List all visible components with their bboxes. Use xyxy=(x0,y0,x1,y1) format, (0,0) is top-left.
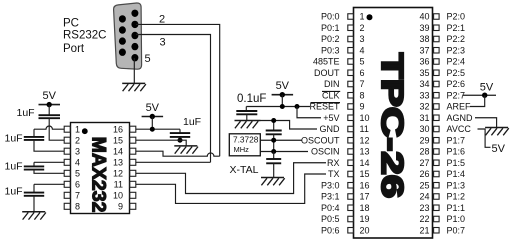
capacitor C2 1uF (pin1 to pin3) xyxy=(24,137,44,140)
overbar on CLK xyxy=(322,90,340,92)
svg-text:10: 10 xyxy=(360,113,370,123)
svg-text:PC: PC xyxy=(63,17,79,29)
svg-text:RESET: RESET xyxy=(309,102,340,112)
svg-text:P2:1: P2:1 xyxy=(447,23,466,33)
svg-text:2: 2 xyxy=(360,23,365,33)
svg-text:11: 11 xyxy=(360,124,369,134)
svg-text:P1:1: P1:1 xyxy=(447,203,466,213)
svg-text:28: 28 xyxy=(419,147,429,157)
svg-text:MHz: MHz xyxy=(234,145,250,154)
wire RESET net to TPC RESET pin xyxy=(246,106,310,108)
svg-text:P2:4: P2:4 xyxy=(447,57,466,67)
wire MAX232 pin14 T1OUT with hop xyxy=(136,151,220,156)
connector J1 DB9 shell PC RS232C port xyxy=(114,3,142,69)
svg-text:6: 6 xyxy=(360,68,365,78)
svg-text:P0:2: P0:2 xyxy=(321,34,340,44)
svg-text:P0:5: P0:5 xyxy=(321,214,340,224)
svg-text:P2:7: P2:7 xyxy=(447,90,466,100)
svg-text:25: 25 xyxy=(419,180,429,190)
capacitor C6 0.1uF (reset) xyxy=(236,111,257,114)
svg-text:30: 30 xyxy=(419,124,429,134)
svg-text:36: 36 xyxy=(419,57,429,67)
svg-text:1uF: 1uF xyxy=(5,132,23,144)
svg-text:24: 24 xyxy=(419,192,429,202)
svg-text:GND: GND xyxy=(320,124,341,134)
wire C2 bottom to MAX232 pin3 xyxy=(34,140,64,151)
svg-text:29: 29 xyxy=(419,135,429,145)
svg-text:P0:6: P0:6 xyxy=(321,225,340,235)
wire TPC P2:7 to 5V xyxy=(463,94,497,96)
wire MAX232 pin11 T1IN to TPC TX xyxy=(136,174,326,203)
svg-text:P1:4: P1:4 xyxy=(447,169,466,179)
wire ground bar to TPC GND pin xyxy=(261,121,318,130)
supply 5V top-left xyxy=(39,90,61,107)
svg-text:12: 12 xyxy=(360,135,370,145)
svg-text:6: 6 xyxy=(75,180,80,190)
svg-text:P0:3: P0:3 xyxy=(321,45,340,55)
svg-text:TPC-26: TPC-26 xyxy=(375,53,409,198)
svg-text:2: 2 xyxy=(159,13,165,25)
svg-text:40: 40 xyxy=(419,12,429,22)
wire pin6 to C4 xyxy=(33,184,35,192)
svg-text:33: 33 xyxy=(419,90,429,100)
IC U1 TPC-26 body xyxy=(354,8,433,239)
svg-text:TX: TX xyxy=(328,169,340,179)
ground at AGND xyxy=(485,128,509,136)
wire J1 pin2 to MAX232 T1OUT net xyxy=(136,24,220,156)
U1 pin1 indicator dot xyxy=(367,14,373,20)
U2 right pin numbers 16-9 xyxy=(113,124,123,211)
wire C8 bottom to ground xyxy=(273,163,275,178)
svg-text:2: 2 xyxy=(75,136,80,146)
svg-text:P2:3: P2:3 xyxy=(447,45,466,55)
svg-text:9: 9 xyxy=(360,102,365,112)
junction RESET +5V branch xyxy=(295,104,300,109)
svg-text:18: 18 xyxy=(360,203,370,213)
svg-text:16: 16 xyxy=(360,180,370,190)
svg-text:AGND: AGND xyxy=(447,113,474,123)
junction OSCOUT xyxy=(271,138,276,143)
wire MAX232 pin12 R1OUT to TPC RX xyxy=(136,163,326,194)
overbar on RESET xyxy=(311,102,341,104)
svg-text:0.1uF: 0.1uF xyxy=(237,93,266,105)
svg-text:23: 23 xyxy=(419,203,429,213)
svg-text:13: 13 xyxy=(360,147,370,157)
svg-text:3: 3 xyxy=(75,147,80,157)
svg-text:27: 27 xyxy=(419,158,429,168)
svg-text:P1:6: P1:6 xyxy=(447,147,466,157)
wire C4 bottom to ground xyxy=(33,196,35,212)
U2 pin1 indicator dot xyxy=(82,128,88,134)
svg-text:P0:4: P0:4 xyxy=(321,203,340,213)
svg-text:4: 4 xyxy=(75,158,80,168)
svg-text:P3:1: P3:1 xyxy=(321,192,340,202)
svg-text:11: 11 xyxy=(114,180,123,190)
svg-text:3: 3 xyxy=(360,34,365,44)
junction C5 GND net xyxy=(178,138,183,143)
capacitor C4 1uF (pin6 to gnd) xyxy=(24,193,44,196)
U1 right pin numbers 40-21 xyxy=(419,12,429,236)
svg-text:3: 3 xyxy=(160,37,166,49)
svg-text:15: 15 xyxy=(360,169,370,179)
wire TPC AGND to ground xyxy=(475,118,497,128)
junction 5V RESET xyxy=(280,104,285,109)
svg-text:7: 7 xyxy=(75,191,80,201)
ground at MAX232 pin15 xyxy=(174,146,198,154)
svg-text:MAX232: MAX232 xyxy=(87,137,109,213)
svg-text:8: 8 xyxy=(75,202,80,212)
svg-text:32: 32 xyxy=(419,102,429,112)
wire OSCIN to C8 top xyxy=(273,152,275,160)
svg-text:DOUT: DOUT xyxy=(314,68,340,78)
svg-text:P3:0: P3:0 xyxy=(321,180,340,190)
svg-text:AREF: AREF xyxy=(447,102,472,112)
svg-text:34: 34 xyxy=(419,79,429,89)
svg-text:1uF: 1uF xyxy=(5,161,23,173)
crystal Y1 7.3728 MHz box xyxy=(229,134,260,156)
svg-text:P0:7: P0:7 xyxy=(447,225,466,235)
svg-text:9: 9 xyxy=(118,202,123,212)
wire branch to TPC +5V pin xyxy=(297,107,321,118)
svg-text:39: 39 xyxy=(419,23,429,33)
svg-text:P1:7: P1:7 xyxy=(447,135,466,145)
svg-text:P0:0: P0:0 xyxy=(321,12,340,22)
junction 5V pin16 xyxy=(150,127,155,132)
wire MAX232 pin13 R1IN xyxy=(136,161,211,163)
svg-text:20: 20 xyxy=(360,225,370,235)
junction P2:7 AREF 5V xyxy=(482,93,487,98)
wire RESET net to C6 top xyxy=(245,107,247,112)
wire C7 bottom through OSCOUT to OSCIN xyxy=(273,134,275,151)
wire Y1 to TPC OSCOUT xyxy=(260,139,302,141)
svg-text:26: 26 xyxy=(419,169,429,179)
svg-text:13: 13 xyxy=(113,158,123,168)
U1 right pin squares 40-21 xyxy=(434,14,440,233)
U1 left pin numbers 1-20 xyxy=(360,12,370,236)
wire to C5 top xyxy=(179,129,181,133)
U2 left pin numbers 1-8 xyxy=(75,125,80,212)
U1 right pin labels xyxy=(447,12,474,236)
svg-text:10: 10 xyxy=(113,191,123,201)
svg-text:P0:1: P0:1 xyxy=(321,23,340,33)
svg-text:21: 21 xyxy=(419,225,429,235)
svg-text:12: 12 xyxy=(113,169,123,179)
svg-text:37: 37 xyxy=(419,45,429,55)
J1 pins 6-9 (left column) xyxy=(119,15,126,56)
wire C5 bottom to pin15 net xyxy=(179,137,181,140)
wire MAX232 pin4 left xyxy=(34,161,64,163)
svg-text:5V: 5V xyxy=(42,90,56,102)
svg-text:P1:0: P1:0 xyxy=(447,214,466,224)
svg-text:1uF: 1uF xyxy=(183,116,201,128)
svg-text:5V: 5V xyxy=(146,102,160,114)
svg-text:7.3728: 7.3728 xyxy=(233,135,259,145)
svg-text:OSCIN: OSCIN xyxy=(311,147,340,157)
svg-text:Port: Port xyxy=(63,43,85,55)
wire J1 pin5 to ground xyxy=(133,58,135,83)
wire TPC AVCC to 5V xyxy=(478,129,491,147)
svg-text:1uF: 1uF xyxy=(5,186,23,198)
svg-text:15: 15 xyxy=(113,135,123,145)
svg-text:P2:0: P2:0 xyxy=(447,12,466,22)
J1 pins 1-5 (right column) xyxy=(131,10,138,62)
U2 left pin squares 1-8 xyxy=(64,126,70,209)
svg-text:P1:3: P1:3 xyxy=(447,180,466,190)
svg-text:DIN: DIN xyxy=(324,79,340,89)
svg-text:22: 22 xyxy=(419,214,429,224)
svg-text:5V: 5V xyxy=(480,82,494,94)
svg-text:RX: RX xyxy=(327,158,340,168)
wire MAX232 pin16 VCC xyxy=(136,128,180,130)
svg-text:P2:6: P2:6 xyxy=(447,79,466,89)
junction gnd net C7 xyxy=(271,118,276,123)
ground below C6 xyxy=(235,121,261,129)
svg-text:+5V: +5V xyxy=(323,113,339,123)
svg-text:5: 5 xyxy=(145,53,151,65)
U1 left pin squares 1-20 xyxy=(348,14,354,233)
wire Y1 to TPC OSCIN xyxy=(260,151,308,153)
svg-text:5: 5 xyxy=(75,169,80,179)
junction OSCIN xyxy=(271,149,276,154)
svg-text:1: 1 xyxy=(360,12,365,22)
svg-text:4: 4 xyxy=(360,45,365,55)
wire TPC AREF up to 5V junction xyxy=(470,95,485,106)
wire MAX232 pin15 GND to ground xyxy=(136,140,186,146)
svg-text:1uF: 1uF xyxy=(17,107,35,119)
svg-text:8: 8 xyxy=(360,90,365,100)
svg-text:31: 31 xyxy=(419,113,429,123)
svg-text:14: 14 xyxy=(113,146,123,156)
wire 5V down to RESET net xyxy=(281,95,283,107)
svg-text:RS232C: RS232C xyxy=(63,30,106,42)
svg-text:16: 16 xyxy=(113,124,123,134)
svg-text:14: 14 xyxy=(360,158,370,168)
svg-text:7: 7 xyxy=(360,79,365,89)
op IC U2 MAX232 body xyxy=(71,123,130,214)
svg-text:AVCC: AVCC xyxy=(447,124,472,134)
svg-text:17: 17 xyxy=(360,192,370,202)
capacitor C5 1uF (VCC bypass) xyxy=(170,133,190,137)
wire pin4 to C3 xyxy=(33,162,35,166)
ground below C8 xyxy=(261,178,285,186)
svg-text:19: 19 xyxy=(360,214,370,224)
svg-text:P1:2: P1:2 xyxy=(447,192,466,202)
svg-text:P2:2: P2:2 xyxy=(447,34,466,44)
wire 5V to C1 top xyxy=(48,105,50,116)
svg-text:485TE: 485TE xyxy=(313,57,340,67)
svg-text:35: 35 xyxy=(419,68,429,78)
svg-text:38: 38 xyxy=(419,34,429,44)
capacitor C3 1uF (pin4 to pin5) xyxy=(24,166,44,169)
wire 5V to pin16 net xyxy=(151,117,153,130)
wire MAX232 pin6 left xyxy=(34,183,64,185)
svg-text:P1:5: P1:5 xyxy=(447,158,466,168)
svg-text:OSCOUT: OSCOUT xyxy=(301,135,340,145)
svg-text:X-TAL: X-TAL xyxy=(230,164,259,176)
svg-text:5: 5 xyxy=(360,57,365,67)
wire gnd net to C7 top xyxy=(273,121,275,131)
wire J1 pin3 to MAX232 R1IN net xyxy=(136,35,211,163)
svg-text:P2:5: P2:5 xyxy=(447,68,466,78)
svg-text:5V: 5V xyxy=(276,80,290,92)
supply 5V middle (RESET pullup) xyxy=(272,80,294,97)
svg-text:1: 1 xyxy=(75,125,80,135)
supply 5V above MAX232 pin16 xyxy=(142,102,164,119)
ground below DB9 xyxy=(122,83,146,91)
U2 right pin squares 16-9 xyxy=(130,126,136,209)
capacitor C8 (osc load) xyxy=(266,159,281,163)
U1 left pin labels xyxy=(301,12,340,236)
ground below C4 xyxy=(22,212,46,220)
capacitor C1 1uF (5V to pin2) xyxy=(39,115,61,118)
wire C3 bottom to MAX232 pin5 xyxy=(34,170,64,174)
wire C2 top to MAX232 pin1 with hop xyxy=(34,126,64,129)
wire C1 bottom to MAX232 pin2 xyxy=(49,118,64,140)
wire pin1 net down to C2 xyxy=(33,129,35,137)
capacitor C7 (osc load) xyxy=(266,131,282,135)
wire C6 bottom to ground xyxy=(246,114,248,120)
svg-text:5V: 5V xyxy=(492,143,506,155)
